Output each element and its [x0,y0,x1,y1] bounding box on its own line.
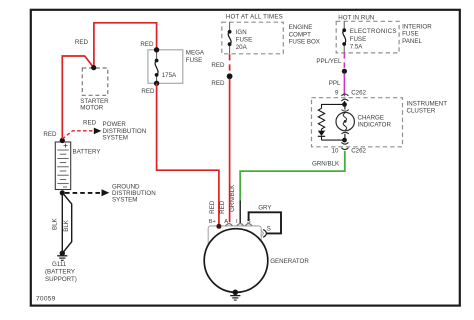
svg-text:IGN: IGN [236,29,247,36]
svg-text:10: 10 [332,147,339,154]
svg-text:RED: RED [219,200,226,214]
svg-text:S: S [247,219,251,225]
svg-text:FUSE BOX: FUSE BOX [289,39,320,46]
svg-text:SYSTEM: SYSTEM [103,135,128,142]
svg-text:PANEL: PANEL [402,38,422,45]
wire GRN/BLK cluster to generator I [240,151,345,201]
label G111 (BATTERY SUPPORT) [45,261,77,283]
wire PPL to instrument cluster [343,74,345,97]
svg-text:INSTRUMENT: INSTRUMENT [407,100,448,107]
svg-text:RED: RED [211,80,225,87]
fuse IGN FUSE 20A [228,22,253,54]
wire BLK battery to ground (right) [63,193,72,252]
branch wire from diode to bottom junction [322,139,345,141]
svg-text:B+: B+ [209,219,216,225]
connector C262 pin 9 [335,89,367,101]
junction dot battery positive [60,138,65,143]
junction dot mega fuse bottom [154,81,159,86]
charge indicator lamp [336,110,391,134]
svg-text:INDICATOR: INDICATOR [358,121,392,128]
svg-text:C262: C262 [351,89,366,96]
wire RED starter motor to mega fuse [94,23,157,68]
terminal labels [209,219,251,225]
svg-text:RED: RED [140,41,154,48]
junction dot cluster bottom [342,138,347,143]
svg-text:RED: RED [209,200,216,214]
svg-text:(BATTERY: (BATTERY [45,268,75,275]
wire RED battery to starter motor [62,56,93,141]
terminal I connector arc [237,224,244,226]
arrow to power distribution system [94,128,102,135]
splice dot [227,73,233,79]
instrument cluster box [312,98,448,147]
ground G111 [57,251,67,261]
wire dashed to ground distribution [65,192,101,194]
svg-text:BLK: BLK [52,217,59,230]
terminal A connector arc [226,224,233,226]
svg-text:SUPPORT): SUPPORT) [45,276,77,283]
junction dot mega fuse top [154,47,159,52]
svg-text:HOT IN RUN: HOT IN RUN [338,15,374,22]
wire RED IGN fuse to generator A [229,79,231,223]
svg-text:PPL: PPL [329,80,341,87]
junction dot cluster top [342,102,347,107]
cap side connector notch [261,230,263,236]
wire PPL/YEL dashed [343,53,345,68]
svg-text:S: S [267,226,271,233]
arrow to ground distribution system [102,189,110,196]
wire black segment to I terminal [239,201,241,224]
svg-text:PPL/YEL: PPL/YEL [316,58,342,65]
fuse ELECTRONICS FUSE 7.5A [342,21,396,53]
svg-text:BATTERY: BATTERY [73,149,101,156]
svg-text:BLK: BLK [63,219,70,232]
terminal B+ junction dot [216,224,221,229]
generator case ground [230,290,240,301]
mega fuse [148,50,205,84]
svg-text:GRN/BLK: GRN/BLK [229,184,236,212]
svg-text:RED: RED [141,88,155,95]
svg-text:20A: 20A [236,44,248,51]
diode [318,129,325,140]
svg-text:MEGA: MEGA [186,50,205,57]
wire out of cluster [344,140,346,142]
svg-text:GRY: GRY [258,204,271,211]
svg-text:7.5A: 7.5A [350,44,364,51]
svg-text:9: 9 [335,89,339,96]
starter motor [80,68,109,111]
IGN fuse box (engine compt fuse box) [222,13,320,53]
generator body [204,229,268,293]
svg-text:RED: RED [75,39,89,46]
svg-text:CLUSTER: CLUSTER [407,108,436,115]
svg-text:FUSE: FUSE [350,36,367,43]
label POWER DISTRIBUTION SYSTEM [103,121,147,141]
svg-text:FUSE: FUSE [236,36,253,43]
label GROUND DISTRIBUTION SYSTEM [112,183,156,203]
svg-text:FUSE: FUSE [186,57,203,64]
resistor [318,108,324,129]
svg-text:ELECTRONICS: ELECTRONICS [350,28,397,35]
svg-text:RED: RED [83,120,97,127]
svg-text:ENGINE: ENGINE [289,24,313,31]
connector C262 pin 10 [332,142,367,154]
svg-text:70059: 70059 [36,295,56,302]
wire RED dashed to power distribution [62,131,93,139]
svg-text:COMPT: COMPT [289,31,312,38]
svg-text:GENERATOR: GENERATOR [270,258,309,265]
svg-text:C262: C262 [351,147,366,154]
generator connector cap [208,226,261,246]
wire BLK battery to ground (left) [61,193,63,251]
svg-text:HOT AT ALL TIMES: HOT AT ALL TIMES [226,13,283,20]
svg-text:G111: G111 [52,261,67,268]
svg-text:INTERIOR: INTERIOR [402,23,432,30]
battery [55,142,100,190]
wire RED dashed below IGN fuse [229,54,231,73]
junction dot at starter motor [91,65,96,70]
svg-text:MOTOR: MOTOR [80,104,103,111]
svg-text:RED: RED [43,131,57,138]
svg-text:FUSE: FUSE [402,31,419,38]
wire into cluster [344,101,346,104]
wire lamp top [344,104,346,109]
svg-text:175A: 175A [162,72,177,79]
electronics fuse box (interior fuse panel) [336,15,432,53]
wire RED mega fuse to generator B+ [157,83,219,224]
junction dot battery negative [60,190,65,195]
splice dot [342,69,347,74]
GRY loop wire [249,204,281,237]
wire lamp bottom [344,134,346,140]
svg-text:RED: RED [211,62,225,69]
terminal S connector arc [245,224,252,226]
svg-text:A: A [224,219,228,225]
branch wire to resistor [322,104,345,108]
svg-text:SYSTEM: SYSTEM [112,197,137,204]
svg-text:GRN/BLK: GRN/BLK [312,161,340,168]
